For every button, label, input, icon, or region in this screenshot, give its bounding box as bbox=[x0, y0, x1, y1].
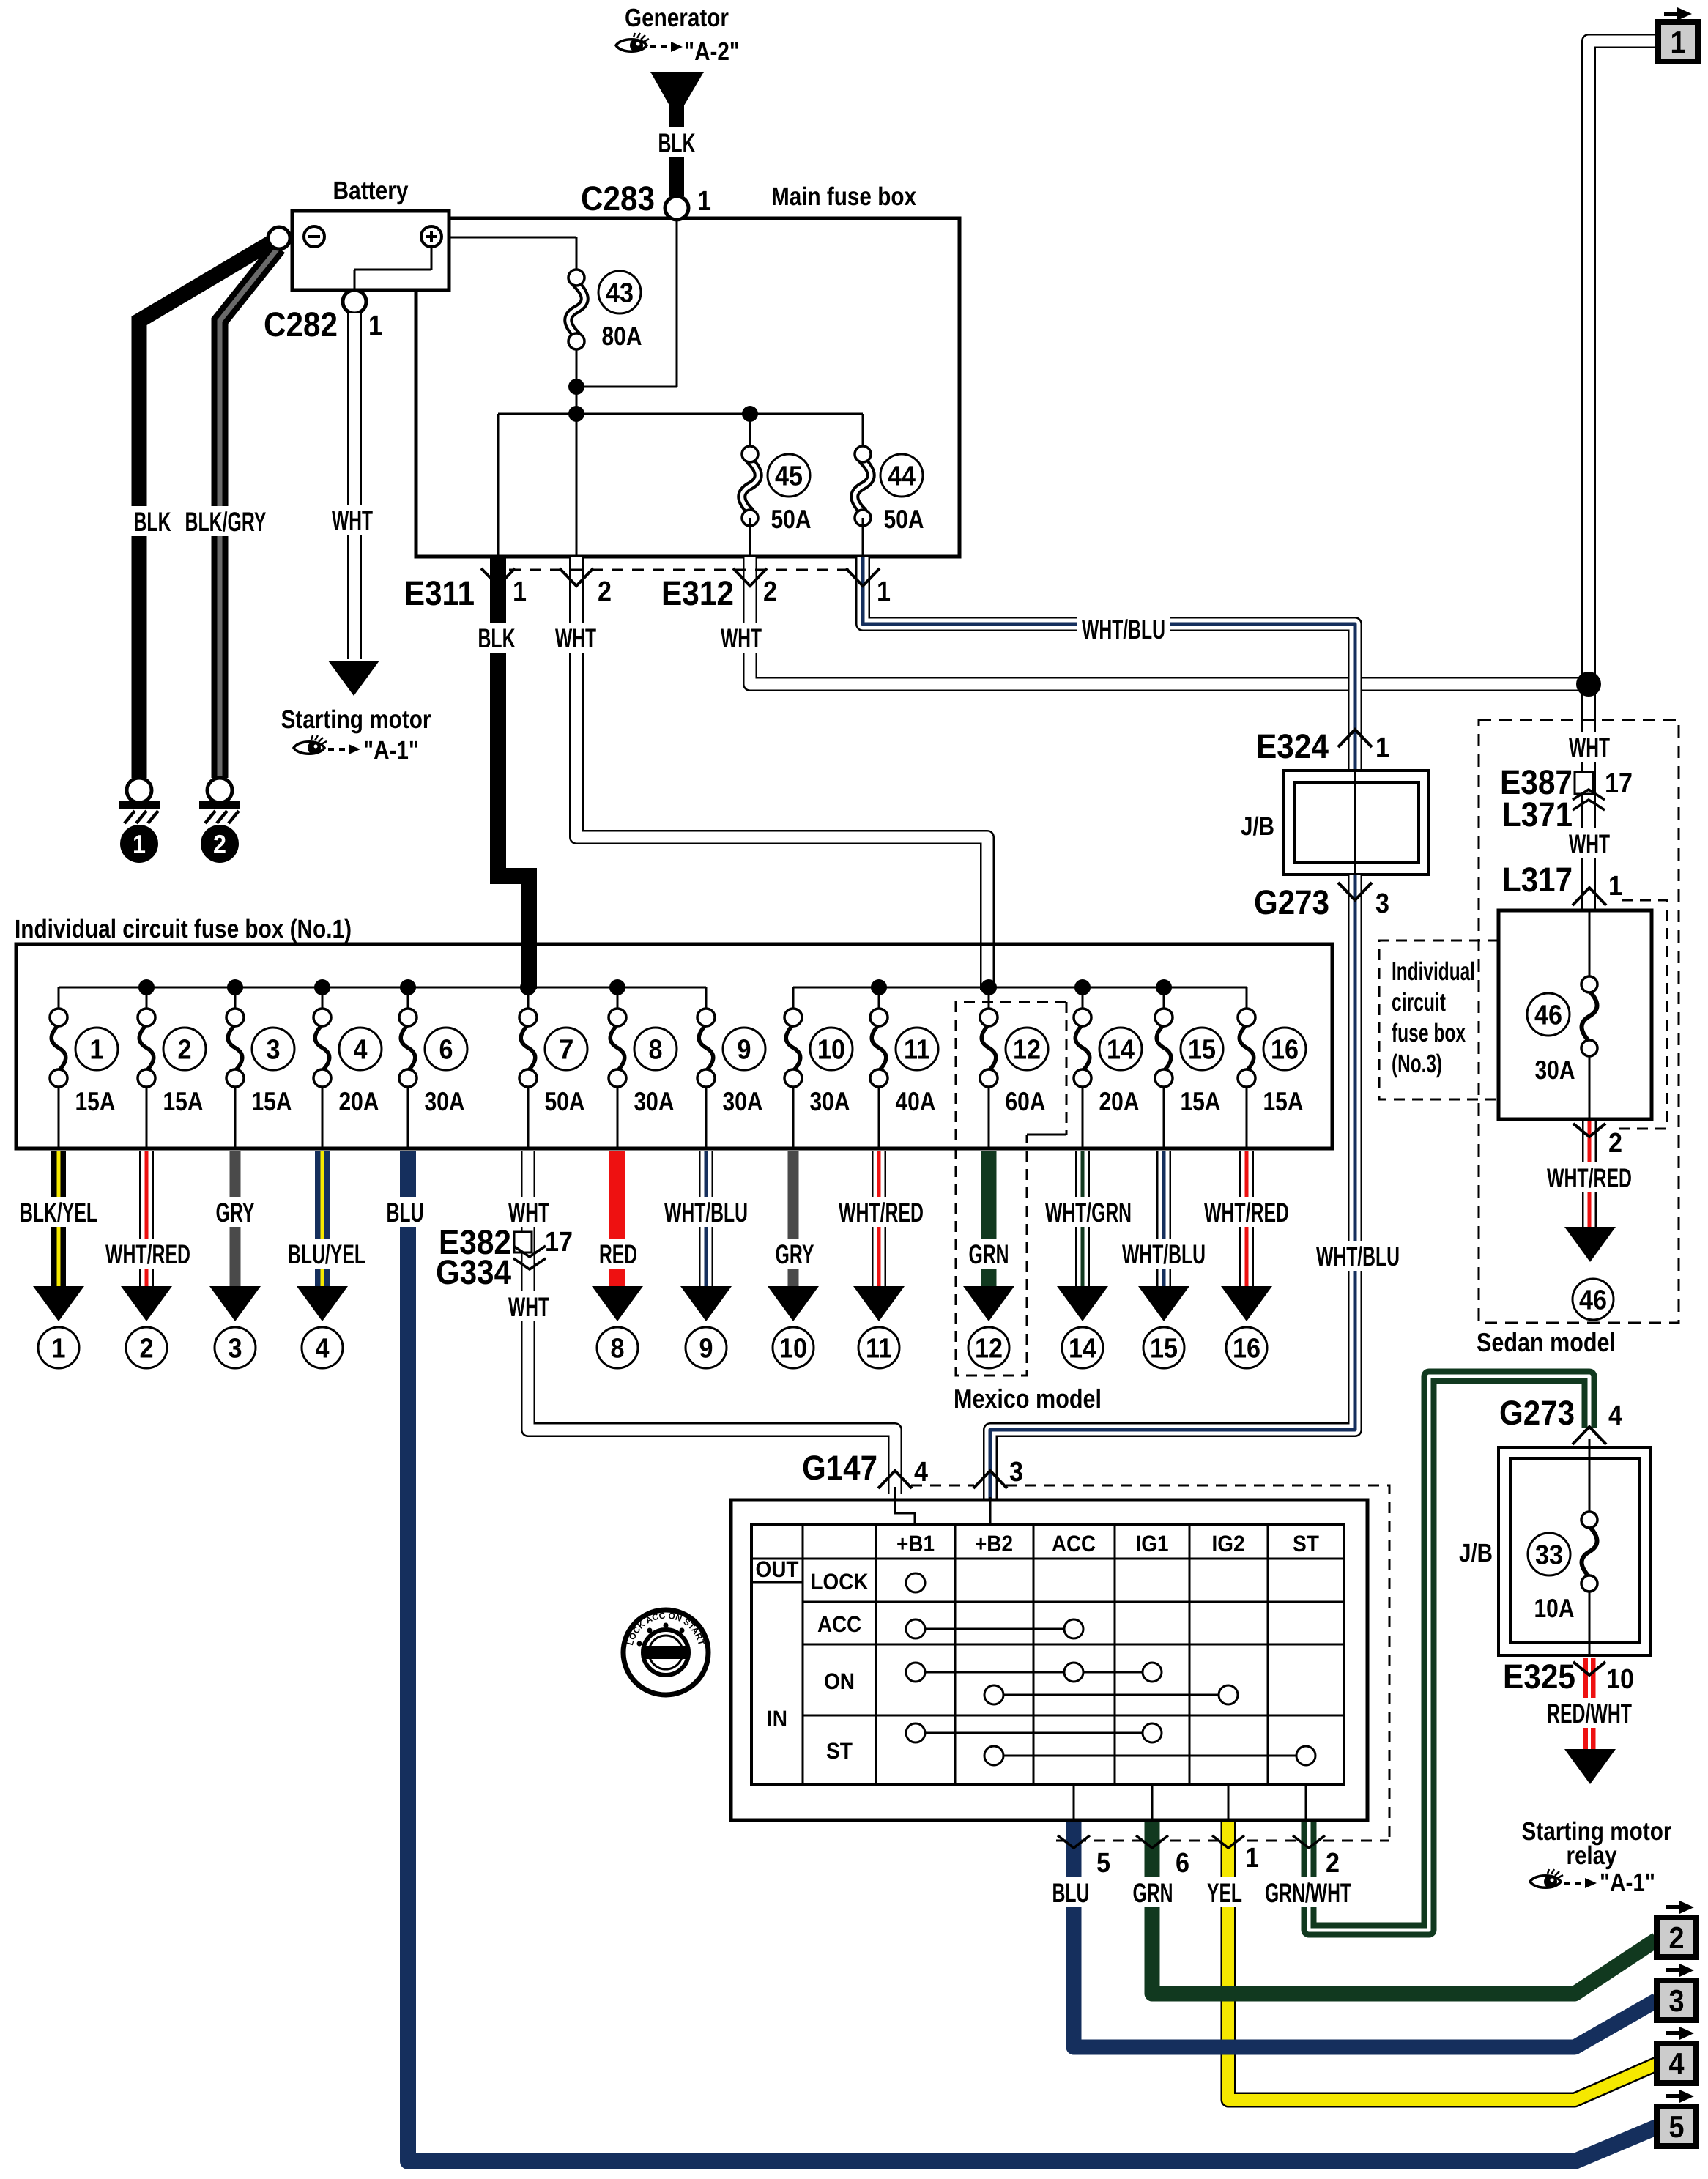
svg-text:4: 4 bbox=[1608, 1400, 1622, 1431]
svg-text:G334: G334 bbox=[436, 1252, 511, 1291]
svg-text:15: 15 bbox=[1188, 1035, 1216, 1066]
svg-text:33: 33 bbox=[1535, 1540, 1563, 1571]
svg-text:15A: 15A bbox=[1181, 1086, 1221, 1116]
svg-text:WHT/RED: WHT/RED bbox=[1547, 1163, 1632, 1193]
svg-text:2: 2 bbox=[1669, 1920, 1685, 1955]
svg-text:1: 1 bbox=[133, 829, 146, 859]
svg-text:10: 10 bbox=[779, 1334, 807, 1365]
svg-text:G147: G147 bbox=[802, 1448, 877, 1487]
svg-text:WHT/RED: WHT/RED bbox=[1204, 1198, 1289, 1228]
svg-text:15: 15 bbox=[1150, 1334, 1178, 1365]
svg-text:1: 1 bbox=[513, 576, 527, 607]
svg-text:fuse box: fuse box bbox=[1392, 1019, 1466, 1047]
svg-text:GRY: GRY bbox=[216, 1198, 255, 1228]
svg-text:(No.3): (No.3) bbox=[1392, 1050, 1442, 1078]
svg-text:6: 6 bbox=[439, 1035, 453, 1066]
svg-text:YEL: YEL bbox=[1207, 1878, 1242, 1908]
svg-text:L317: L317 bbox=[1502, 860, 1573, 899]
svg-text:3: 3 bbox=[1009, 1457, 1023, 1488]
svg-text:WHT/BLU: WHT/BLU bbox=[664, 1198, 748, 1228]
svg-text:GRN: GRN bbox=[969, 1239, 1009, 1269]
svg-text:E324: E324 bbox=[1256, 727, 1329, 765]
svg-text:2: 2 bbox=[140, 1334, 154, 1365]
svg-text:4: 4 bbox=[1669, 2046, 1685, 2081]
svg-text:ST: ST bbox=[1293, 1531, 1319, 1556]
svg-text:50A: 50A bbox=[884, 504, 924, 534]
svg-text:BLU: BLU bbox=[387, 1198, 424, 1228]
svg-text:+B1: +B1 bbox=[896, 1531, 935, 1556]
svg-text:BLK: BLK bbox=[134, 507, 171, 537]
svg-text:4: 4 bbox=[316, 1334, 330, 1365]
svg-text:6: 6 bbox=[1176, 1848, 1189, 1879]
svg-text:ON: ON bbox=[824, 1668, 855, 1694]
svg-text:WHT/BLU: WHT/BLU bbox=[1122, 1239, 1206, 1269]
svg-text:10: 10 bbox=[817, 1035, 845, 1066]
svg-text:J/B: J/B bbox=[1241, 812, 1274, 841]
svg-text:1: 1 bbox=[90, 1035, 104, 1066]
svg-text:44: 44 bbox=[888, 461, 916, 492]
svg-text:E325: E325 bbox=[1503, 1657, 1575, 1696]
svg-text:"A-2": "A-2" bbox=[684, 37, 740, 66]
svg-text:WHT/BLU: WHT/BLU bbox=[1082, 615, 1165, 645]
svg-text:L371: L371 bbox=[1502, 795, 1573, 834]
svg-text:16: 16 bbox=[1271, 1035, 1299, 1066]
svg-text:WHT/RED: WHT/RED bbox=[105, 1239, 190, 1269]
svg-text:BLK/GRY: BLK/GRY bbox=[185, 507, 267, 537]
svg-text:2: 2 bbox=[178, 1035, 192, 1066]
svg-text:20A: 20A bbox=[1099, 1086, 1140, 1116]
svg-text:16: 16 bbox=[1233, 1334, 1260, 1365]
svg-text:WHT/GRN: WHT/GRN bbox=[1045, 1198, 1132, 1228]
svg-text:Generator: Generator bbox=[625, 4, 729, 32]
svg-text:3: 3 bbox=[267, 1035, 281, 1066]
svg-text:Starting motor: Starting motor bbox=[281, 705, 431, 734]
svg-text:circuit: circuit bbox=[1392, 988, 1446, 1017]
svg-text:RED/WHT: RED/WHT bbox=[1547, 1699, 1632, 1729]
svg-text:C283: C283 bbox=[581, 179, 655, 218]
svg-text:9: 9 bbox=[699, 1334, 713, 1365]
svg-text:15A: 15A bbox=[75, 1086, 116, 1116]
svg-text:OUT: OUT bbox=[756, 1556, 799, 1582]
svg-text:Individual: Individual bbox=[1392, 957, 1475, 986]
svg-text:11: 11 bbox=[904, 1035, 930, 1066]
svg-text:50A: 50A bbox=[545, 1086, 585, 1116]
svg-text:relay: relay bbox=[1567, 1841, 1617, 1870]
svg-text:BLK/YEL: BLK/YEL bbox=[20, 1198, 97, 1228]
svg-text:3: 3 bbox=[1669, 1983, 1685, 2018]
svg-text:G273: G273 bbox=[1499, 1393, 1575, 1432]
svg-text:2: 2 bbox=[1326, 1848, 1340, 1879]
svg-text:GRN/WHT: GRN/WHT bbox=[1265, 1878, 1351, 1908]
svg-text:Mexico model: Mexico model bbox=[954, 1384, 1102, 1414]
svg-text:80A: 80A bbox=[602, 321, 642, 351]
svg-text:50A: 50A bbox=[771, 504, 812, 534]
svg-text:BLK: BLK bbox=[478, 623, 516, 653]
svg-text:1: 1 bbox=[52, 1334, 66, 1365]
svg-text:2: 2 bbox=[763, 576, 777, 607]
svg-text:WHT: WHT bbox=[332, 505, 373, 535]
svg-text:30A: 30A bbox=[1535, 1055, 1575, 1085]
svg-text:IG2: IG2 bbox=[1212, 1531, 1245, 1556]
svg-text:30A: 30A bbox=[425, 1086, 465, 1116]
svg-text:7: 7 bbox=[559, 1035, 574, 1066]
svg-text:2: 2 bbox=[1608, 1128, 1622, 1159]
svg-text:C282: C282 bbox=[264, 305, 338, 344]
svg-text:BLK: BLK bbox=[658, 128, 696, 158]
svg-text:Main fuse box: Main fuse box bbox=[771, 182, 916, 211]
svg-text:40A: 40A bbox=[896, 1086, 936, 1116]
svg-text:E312: E312 bbox=[661, 573, 734, 612]
svg-text:30A: 30A bbox=[634, 1086, 675, 1116]
svg-text:4: 4 bbox=[914, 1457, 928, 1488]
svg-text:ACC: ACC bbox=[1052, 1531, 1096, 1556]
svg-text:30A: 30A bbox=[810, 1086, 850, 1116]
svg-text:60A: 60A bbox=[1006, 1086, 1046, 1116]
svg-text:11: 11 bbox=[866, 1334, 892, 1365]
svg-text:20A: 20A bbox=[339, 1086, 379, 1116]
svg-text:1: 1 bbox=[1608, 871, 1622, 902]
svg-text:15A: 15A bbox=[1263, 1086, 1304, 1116]
svg-text:2: 2 bbox=[598, 576, 612, 607]
svg-text:17: 17 bbox=[545, 1227, 573, 1258]
svg-text:WHT: WHT bbox=[1569, 829, 1610, 859]
svg-text:BLU/YEL: BLU/YEL bbox=[288, 1239, 365, 1269]
svg-text:Individual circuit fuse box (N: Individual circuit fuse box (No.1) bbox=[15, 915, 352, 943]
svg-text:2: 2 bbox=[213, 829, 226, 859]
svg-text:+B2: +B2 bbox=[975, 1531, 1013, 1556]
svg-text:46: 46 bbox=[1579, 1285, 1607, 1316]
svg-text:RED: RED bbox=[599, 1239, 637, 1269]
svg-text:1: 1 bbox=[368, 311, 382, 341]
svg-text:Battery: Battery bbox=[333, 177, 409, 205]
svg-text:3: 3 bbox=[229, 1334, 242, 1365]
svg-text:10A: 10A bbox=[1534, 1593, 1575, 1623]
svg-text:E311: E311 bbox=[404, 573, 475, 612]
svg-text:WHT: WHT bbox=[508, 1292, 549, 1322]
svg-text:WHT: WHT bbox=[555, 623, 596, 653]
svg-text:WHT/BLU: WHT/BLU bbox=[1316, 1241, 1400, 1272]
svg-text:1: 1 bbox=[1375, 732, 1389, 763]
svg-text:ST: ST bbox=[826, 1738, 853, 1764]
svg-text:G273: G273 bbox=[1254, 883, 1329, 921]
svg-text:"A-1": "A-1" bbox=[1600, 1868, 1655, 1897]
svg-text:1: 1 bbox=[697, 186, 711, 217]
svg-text:BLU: BLU bbox=[1052, 1878, 1090, 1908]
svg-text:3: 3 bbox=[1375, 888, 1389, 919]
svg-text:12: 12 bbox=[1013, 1035, 1041, 1066]
svg-text:30A: 30A bbox=[723, 1086, 763, 1116]
svg-text:GRY: GRY bbox=[776, 1239, 814, 1269]
svg-text:"A-1": "A-1" bbox=[363, 736, 419, 765]
svg-text:46: 46 bbox=[1534, 1001, 1562, 1031]
svg-text:17: 17 bbox=[1605, 768, 1633, 799]
svg-text:J/B: J/B bbox=[1459, 1539, 1493, 1567]
svg-text:1: 1 bbox=[1671, 25, 1686, 59]
svg-text:IG1: IG1 bbox=[1136, 1531, 1169, 1556]
svg-text:5: 5 bbox=[1669, 2109, 1685, 2144]
svg-text:8: 8 bbox=[611, 1334, 625, 1365]
svg-text:43: 43 bbox=[606, 278, 634, 309]
svg-text:IN: IN bbox=[767, 1706, 787, 1731]
svg-text:1: 1 bbox=[1245, 1843, 1259, 1874]
svg-text:GRN: GRN bbox=[1133, 1878, 1173, 1908]
svg-text:WHT: WHT bbox=[508, 1198, 549, 1228]
svg-text:12: 12 bbox=[975, 1334, 1003, 1365]
svg-text:15A: 15A bbox=[163, 1086, 204, 1116]
svg-text:10: 10 bbox=[1606, 1664, 1634, 1695]
svg-text:LOCK: LOCK bbox=[811, 1569, 869, 1595]
svg-text:WHT/RED: WHT/RED bbox=[839, 1198, 924, 1228]
svg-text:45: 45 bbox=[775, 461, 803, 492]
svg-text:8: 8 bbox=[649, 1035, 663, 1066]
svg-text:ACC: ACC bbox=[817, 1611, 861, 1637]
svg-text:14: 14 bbox=[1069, 1334, 1096, 1365]
svg-text:14: 14 bbox=[1107, 1035, 1135, 1066]
svg-text:WHT: WHT bbox=[721, 623, 762, 653]
svg-text:WHT: WHT bbox=[1569, 732, 1610, 762]
svg-text:Sedan model: Sedan model bbox=[1477, 1327, 1616, 1357]
svg-text:9: 9 bbox=[738, 1035, 751, 1066]
svg-text:15A: 15A bbox=[252, 1086, 292, 1116]
svg-text:1: 1 bbox=[877, 576, 891, 607]
svg-text:5: 5 bbox=[1096, 1848, 1110, 1879]
svg-text:4: 4 bbox=[354, 1035, 368, 1066]
